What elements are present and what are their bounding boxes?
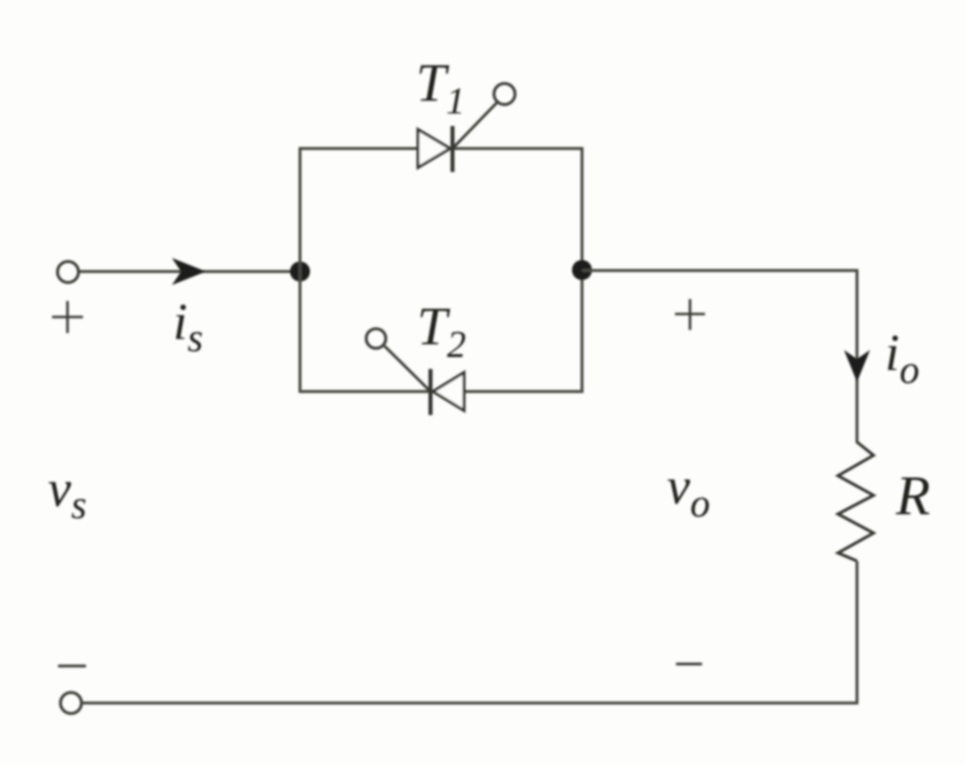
wire: right output vertical (top) — [856, 269, 859, 443]
node A (left junction dot) — [290, 262, 310, 282]
minus sign (v_o polarity) — [676, 663, 702, 666]
thyristor T2 gate lead — [385, 346, 430, 391]
resistor R zigzag — [838, 442, 874, 561]
bottom-left terminal (open circle) — [61, 693, 82, 714]
thyristor T2 gate terminal circle — [366, 329, 386, 349]
wire: top branch right segment — [452, 147, 583, 150]
minus sign (v_s polarity) — [58, 665, 86, 668]
thyristor T1 gate lead — [453, 103, 497, 149]
thyristor T2 anode triangle — [433, 373, 464, 411]
wire: resistor to bottom conductor — [856, 561, 859, 704]
arrowhead: i_o current direction — [844, 350, 870, 382]
wire: output top conductor — [582, 269, 858, 272]
wire: right branch vertical — [581, 147, 584, 393]
node B (right junction dot) — [572, 260, 592, 280]
wire: left branch vertical — [299, 149, 302, 392]
svg-text:R: R — [895, 465, 930, 527]
plus sign (v_o polarity) — [675, 299, 705, 330]
wire: input terminal to node A — [79, 270, 300, 273]
wire: top branch left segment — [299, 147, 419, 150]
arrowhead: i_s current direction — [172, 258, 206, 285]
thyristor T1 gate terminal circle — [494, 84, 515, 105]
wire: bottom branch left segment — [299, 390, 430, 393]
wire: bottom return conductor — [82, 702, 858, 705]
input terminal (top-left open circle) — [58, 262, 79, 283]
thyristor T2 cathode bar — [429, 369, 433, 415]
thyristor T1 anode triangle — [418, 130, 450, 168]
plus sign (v_s polarity) — [52, 301, 83, 333]
thyristor T1 cathode bar — [451, 126, 455, 172]
wire: bottom branch right segment — [464, 390, 583, 393]
